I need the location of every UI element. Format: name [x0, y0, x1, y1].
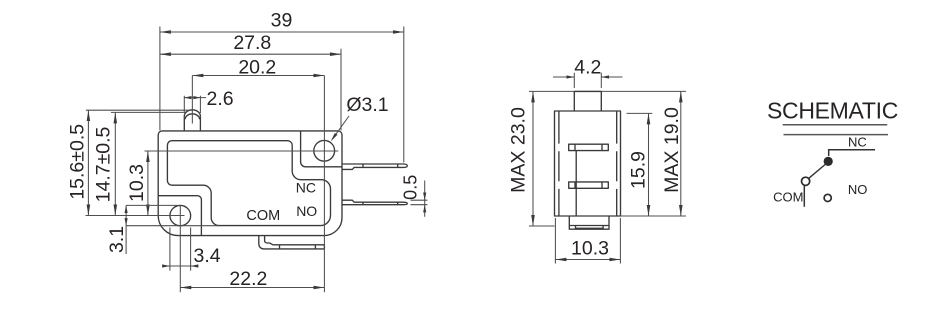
dimension 10.3 (depth)	[555, 218, 620, 264]
dimension 3.4	[170, 228, 191, 271]
bottom terminal block	[569, 216, 609, 229]
svg-text:4.2: 4.2	[574, 56, 601, 78]
mounting-hole corner block separator	[301, 131, 343, 167]
svg-text:MAX 23.0: MAX 23.0	[507, 107, 529, 193]
side case body	[555, 111, 621, 216]
NC contact dot	[824, 157, 833, 166]
dimension 27.8	[160, 53, 341, 55]
svg-text:COM: COM	[246, 208, 280, 224]
internal terminal bar 1	[569, 144, 609, 150]
top hole centerline horizontal (10.3 extension)	[145, 150, 339, 152]
case inner wall left	[558, 112, 560, 217]
bottom hole centerline vertical (22.2 extension)	[179, 205, 181, 292]
dimension MAX 23.0	[532, 91, 534, 226]
internal terminal bar 2	[569, 182, 609, 188]
svg-text:NO: NO	[848, 182, 868, 197]
svg-text:14.7±0.5: 14.7±0.5	[93, 126, 115, 202]
svg-text:20.2: 20.2	[238, 57, 276, 79]
svg-text:MAX 19.0: MAX 19.0	[661, 107, 683, 193]
COM terminal	[259, 236, 325, 249]
hole centerline vertical (20.2 / 22.2 extension)	[323, 76, 325, 293]
svg-text:NC: NC	[296, 180, 316, 196]
svg-text:2.6: 2.6	[207, 88, 234, 110]
svg-text:10.3: 10.3	[571, 237, 609, 259]
dimension 3.1	[125, 205, 127, 254]
dimension 2.6	[184, 96, 200, 113]
inner case outline	[167, 141, 330, 226]
dimension 4.2	[574, 73, 601, 88]
dimension MAX 19.0	[680, 91, 682, 216]
dimension 22.2	[180, 287, 324, 289]
svg-text:22.2: 22.2	[229, 268, 267, 290]
svg-text:COM: COM	[773, 189, 803, 204]
case inner wall right	[616, 112, 618, 217]
svg-text:Ø3.1: Ø3.1	[346, 94, 388, 116]
COM wire	[803, 186, 805, 207]
dimension 39	[160, 31, 404, 33]
svg-text:0.5: 0.5	[401, 175, 421, 200]
COM pivot contact	[802, 177, 810, 185]
svg-text:39: 39	[271, 9, 293, 31]
title underline 1	[783, 124, 888, 126]
bottom mounting hole	[170, 205, 191, 225]
dimension 20.2	[192, 75, 324, 77]
svg-text:3.4: 3.4	[194, 245, 221, 267]
case bottom extension line	[621, 215, 687, 217]
dimension 10.3 (hole spacing)	[147, 151, 149, 216]
plunger dome inner arc	[185, 114, 200, 119]
svg-text:NO: NO	[296, 203, 317, 219]
NO contact circle	[824, 194, 831, 201]
plunger button sides	[184, 116, 200, 131]
title underline 2	[784, 134, 889, 136]
bottom hole centerline horizontal (15.6/14.7/10.3 extension)	[86, 215, 185, 217]
svg-text:27.8: 27.8	[233, 32, 271, 54]
top mounting hole	[314, 140, 335, 161]
plunger dome outer arc	[184, 110, 200, 116]
svg-text:3.1: 3.1	[106, 226, 128, 253]
NC wire	[829, 150, 875, 156]
dimension 0.5 (terminal thickness)	[411, 200, 428, 205]
plunger top extension line	[529, 90, 686, 92]
svg-text:10.3: 10.3	[126, 164, 148, 202]
switch lever	[807, 163, 827, 180]
svg-text:15.9: 15.9	[628, 151, 650, 189]
dimension 15.6±0.5	[87, 110, 89, 215]
plunger centerline (also 20.2 extension)	[191, 76, 193, 124]
internal partition line	[575, 151, 577, 216]
svg-text:15.6±0.5: 15.6±0.5	[67, 124, 89, 200]
dimension 14.7±0.5	[114, 112, 116, 215]
hinge block separator line	[158, 196, 201, 236]
dimension 15.9	[648, 113, 650, 216]
switch body outer outline	[158, 131, 342, 236]
NO terminal	[343, 200, 408, 205]
NC terminal	[343, 164, 408, 169]
svg-text:SCHEMATIC: SCHEMATIC	[767, 98, 898, 124]
svg-text:NC: NC	[848, 134, 867, 149]
side plunger	[574, 91, 601, 111]
